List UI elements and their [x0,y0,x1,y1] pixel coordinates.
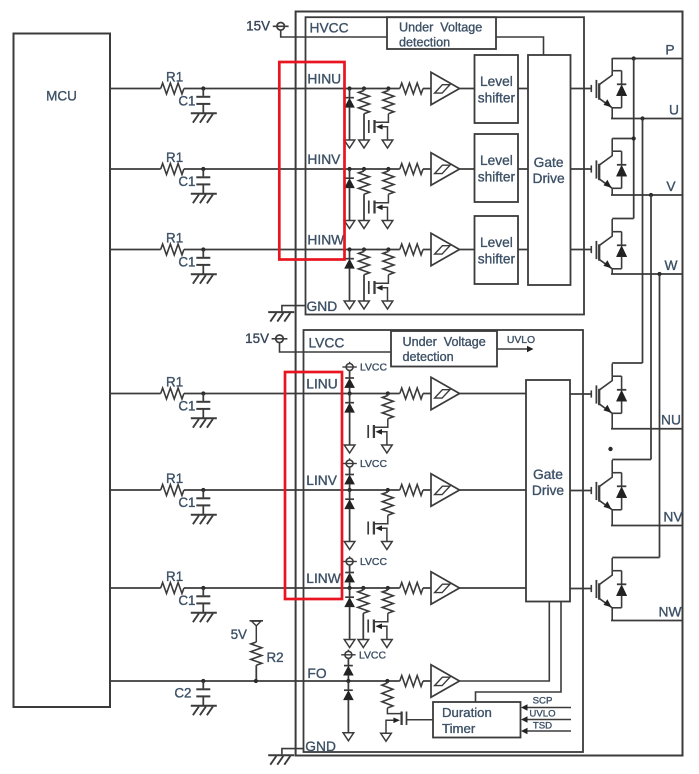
ground symbol (C1 LINV) [191,515,217,525]
junction clamp diodes (LINV) [348,488,352,492]
wire to buffer (HINU) [423,88,431,90]
wire UV detection to gate drive (high) [496,37,544,55]
open arrow GND (NMOS HINU) [382,140,393,148]
junction clamp diode (HINW) [347,247,351,251]
junction pulldown (HINU) [362,86,366,90]
svg-text:W: W [664,258,677,273]
pull-down resistor (HINV) [359,169,370,220]
schmitt buffer (FO) [431,665,460,698]
FO pin label [307,666,326,681]
capacitor C1 (HINV row) [196,169,210,194]
wire to buffer (LINU) [423,393,431,395]
wire to buffer (LINV) [423,489,431,491]
C1 label (HINV) [178,174,195,189]
clamp diode to GND (LINU) [345,394,355,445]
level shifter block (V phase) [475,134,519,202]
junction mosfet branch (LINV) [386,488,390,492]
collector bracket (NW) [612,557,659,559]
buffer output wire (LINU) [460,393,527,395]
open arrow GND (pulldown HINV) [359,221,370,229]
resistor R1 (LINV row) [161,485,184,496]
pull-down resistor (LINW) [358,588,369,639]
wire MCU to R1 (HINW) [110,249,161,251]
red highlight box (high-side inputs) [279,62,344,260]
wire MCU to R1 (HINV) [110,168,161,170]
ground symbol (C2) [191,706,217,716]
clamp diode to GND (HINU) [345,89,355,140]
svg-text:HINV: HINV [307,152,341,167]
wire gate drive to duration timer [476,602,562,703]
buffer output wire (HINU) [460,88,475,90]
svg-text:shifter: shifter [478,91,516,106]
NW rail [611,620,683,622]
resistor to NMOS (HINW) [383,250,394,275]
svg-text:NV: NV [663,510,683,525]
node dot between NU and NV [608,447,612,451]
5V supply arrow [250,621,264,642]
clamp diode to GND (LINV) [345,490,355,541]
LINU pin label [306,377,337,392]
open arrow GND (diode HINV) [344,221,355,229]
junction clamp diode (HINV) [347,167,351,171]
R1 label (LINV) [166,471,183,486]
open arrow GND (diode FO) [343,733,354,741]
resistor R1 (LINU row) [161,388,184,399]
schmitt buffer (HINV) [431,153,460,186]
junction C1 (LINV) [201,488,205,492]
schmitt buffer (LINU) [431,377,460,410]
svg-text:V: V [666,179,676,194]
buffer output wire (LINV) [460,489,527,491]
wire R1 to buffer input (LINV) [184,489,400,491]
V label [666,179,676,194]
svg-text:LINU: LINU [306,377,337,392]
under-voltage detection box (low) [391,331,497,367]
open arrow GND (NMOS LINW) [382,640,393,648]
GND pin wire (low) [282,749,304,755]
svg-text:C1: C1 [178,255,195,270]
wire to buffer (FO) [423,680,431,682]
red highlight box (low-side inputs) [285,372,342,599]
high-side driver inner box [306,17,585,314]
NMOS transistor (FO, fault pull-down) [386,708,407,733]
ground symbol (low GND) [268,755,294,765]
series resistor at buffer (HINW) [400,244,423,255]
C1 label (LINW) [178,593,195,608]
svg-text:R1: R1 [166,374,183,389]
schmitt buffer (HINW) [431,233,460,266]
svg-text:LVCC: LVCC [359,650,386,661]
LVCC small label (FO) [359,650,386,661]
svg-text:5V: 5V [231,627,247,642]
wire gate drive to IGBT gate (NU) [570,393,591,395]
GND pin label (low) [305,739,336,754]
svg-text:UVLO: UVLO [529,709,555,720]
svg-text:C2: C2 [174,686,191,701]
R1 label (LINU) [166,374,183,389]
P label [665,43,674,58]
U label [669,103,679,118]
U rail [611,116,683,120]
NMOS transistor (HINW) [369,275,389,301]
NMOS transistor (HINV) [369,194,389,220]
GND pin wire (high) [282,306,306,312]
clamp diode to LVCC (LINW) [345,565,355,588]
schmitt buffer (HINU) [431,72,460,105]
svg-text:detection: detection [403,350,454,364]
LVCC pin label [309,335,345,350]
series resistor at buffer (LINU) [400,388,423,399]
junction clamp diode (HINU) [347,86,351,90]
wire R1 to buffer input (HINW) [184,249,400,251]
junction R2-FO [254,679,258,683]
svg-text:LINV: LINV [306,473,337,488]
open arrow GND (NMOS LINV) [382,542,393,550]
junction pulldown (HINV) [362,167,366,171]
LINV pin label [306,473,337,488]
LVCC small label (LINV) [360,459,387,470]
wire R1 to buffer input (LINW) [184,587,400,589]
UVLO input wire and arrow [521,709,571,723]
NV label [663,510,683,525]
svg-text:shifter: shifter [478,252,516,267]
R2 label [267,650,284,665]
clamp diode to GND (FO) [344,681,354,733]
capacitor C1 (LINV row) [196,490,210,515]
wire MCU to R1 (HINU) [110,88,161,90]
P bus vertical [633,59,635,219]
collector bracket (NU) [612,362,642,364]
W bus vertical [659,274,661,558]
svg-text:Gate: Gate [534,155,564,170]
C1 label (HINW) [178,255,195,270]
open arrow GND (diode LINU) [344,445,355,453]
LVCC small label (LINU) [360,363,387,374]
svg-text:LINW: LINW [306,571,341,586]
resistor R1 (HINU row) [161,83,184,94]
HVCC pin label [310,20,349,35]
resistor to NMOS (LINW) [382,588,393,613]
svg-text:Timer: Timer [442,721,476,736]
GND pin label (high) [307,299,338,314]
pull resistor (FO) [382,681,393,708]
schmitt buffer (LINW) [431,572,460,605]
collector bracket (NV) [612,459,651,461]
pull-down resistor (HINW) [359,250,370,301]
svg-text:NU: NU [661,413,681,428]
FO buffer output wire [460,602,550,682]
resistor R1 (HINW row) [161,244,184,255]
junction mosfet branch (LINW) [386,586,390,590]
svg-text:Duration: Duration [442,705,492,720]
svg-text:R1: R1 [166,569,183,584]
buffer output wire (HINV) [460,168,475,170]
resistor R1 (LINW row) [161,583,184,594]
duration timer block [433,702,521,738]
capacitor C1 (HINW row) [196,250,210,275]
open arrow GND (NMOS LINU) [382,445,393,453]
NMOS gate wire from duration timer [407,719,434,721]
svg-text:R1: R1 [166,69,183,84]
junction C1 (HINW) [201,247,205,251]
open arrow GND (pulldown HINW) [359,301,370,309]
R1 label (HINV) [166,150,183,165]
under-voltage detection box (high) [387,17,496,49]
capacitor C1 (HINU row) [196,89,210,114]
ground symbol (C1 HINW) [191,274,217,284]
svg-text:GND: GND [307,299,338,314]
wire level shifter to gate drive (W) [518,249,528,251]
open arrow GND (pulldown HINU) [359,140,370,148]
HINW pin label [307,232,344,247]
capacitor C1 (LINU row) [196,394,210,419]
resistor R2 [251,642,262,681]
svg-text:P: P [665,43,674,58]
wire 15V to LVCC [280,343,392,352]
svg-text:Drive: Drive [532,483,565,498]
series resistor at buffer (HINV) [400,164,423,175]
junction clamp diodes (LINU) [348,391,352,395]
LVCC small label (LINW) [360,557,387,568]
svg-text:15V: 15V [245,331,269,346]
wire gate drive to IGBT gate (U high) [571,88,592,90]
open arrow GND (diode HINU) [344,140,355,148]
R1 label (HINU) [166,69,183,84]
NW label [659,605,682,620]
MCU block [14,34,111,708]
svg-text:R1: R1 [166,150,183,165]
wire gate drive to IGBT gate (NV) [570,490,591,492]
clamp diode to LVCC (LINV) [345,467,355,490]
junction C1 (LINU) [201,391,205,395]
clamp diode to LVCC (LINU) [345,371,355,394]
IGBT with diode (U phase low side) [591,364,627,429]
15V terminal (low side) [245,331,287,346]
svg-text:C1: C1 [178,593,195,608]
svg-text:FO: FO [307,666,326,681]
IGBT with diode (V phase high side) [591,139,627,196]
svg-text:C1: C1 [178,174,195,189]
NMOS transistor (LINV) [368,515,388,541]
schmitt buffer (LINV) [431,474,460,507]
P rail [612,56,682,60]
svg-text:UVLO: UVLO [507,335,535,346]
resistor R1 (HINV row) [161,164,184,175]
svg-text:HINW: HINW [307,232,344,247]
wire R1 to buffer input (HINU) [184,88,400,90]
junction pulldown (LINW) [361,586,365,590]
svg-text:Gate: Gate [533,467,563,482]
low-side driver inner box [304,330,584,752]
ground symbol (C1 HINV) [191,194,217,204]
wire MCU to R1 (LINU) [110,393,161,395]
clamp diode to GND (LINW) [345,588,355,639]
open arrow GND (diode LINV) [344,542,355,550]
open arrow GND (NMOS HINW) [382,301,393,309]
level shifter block (U phase) [475,55,519,123]
collector bracket (W high) [612,218,634,220]
junction clamp diodes (FO) [346,679,350,683]
LINW pin label [306,571,341,586]
open arrow GND (NMOS FO) [381,733,392,741]
buffer output wire (HINW) [460,249,475,251]
svg-text:R2: R2 [267,650,284,665]
svg-text:LVCC: LVCC [360,363,387,374]
ground symbol (C1 LINW) [191,613,217,623]
junction C1 (HINV) [201,167,205,171]
IGBT with diode (U phase high side) [591,58,627,119]
V rail [611,193,683,197]
IPM module outer box [296,12,683,756]
svg-text:C1: C1 [178,94,195,109]
UVLO output arrow [497,335,535,352]
svg-text:GND: GND [305,739,336,754]
svg-text:Level: Level [480,74,513,89]
buffer output wire (LINW) [460,587,527,589]
HINU pin label [307,71,341,86]
open arrow GND (diode LINW) [344,640,355,648]
junction C1 (LINW) [201,586,205,590]
svg-text:Under Voltage: Under Voltage [399,21,482,35]
R1 label (LINW) [166,569,183,584]
svg-text:detection: detection [399,36,450,50]
NMOS transistor (HINU) [369,114,389,140]
wire gate drive to IGBT gate (V high) [571,168,592,170]
C1 label (LINU) [178,399,195,414]
wire level shifter to gate drive (U) [518,88,528,90]
C1 label (HINU) [178,94,195,109]
wire MCU to R1 (LINW) [110,587,161,589]
W label [664,258,677,273]
clamp diode to GND (HINW) [345,250,355,301]
series resistor at buffer (HINU) [400,83,423,94]
IGBT with diode (W phase high side) [591,219,627,274]
series resistor at buffer (FO) [400,676,423,687]
TSD input wire and arrow [521,721,571,735]
svg-text:MCU: MCU [46,88,77,103]
svg-text:HVCC: HVCC [310,20,349,35]
ground symbol (C1 LINU) [191,418,217,428]
svg-text:TSD: TSD [533,721,552,732]
NU rail [611,428,683,430]
wire level shifter to gate drive (V) [518,168,528,170]
open arrow GND (pulldown LINW) [358,640,369,648]
svg-text:C1: C1 [178,399,195,414]
NMOS transistor (LINU) [368,419,388,445]
clamp diode to GND (HINV) [345,169,355,220]
SCP input wire and arrow [521,696,571,711]
U bus vertical [642,119,644,364]
wire R1 to buffer input (LINU) [184,393,400,395]
svg-text:LVCC: LVCC [360,459,387,470]
svg-text:15V: 15V [246,19,270,34]
LVCC terminal (FO) [341,650,355,660]
C1 label (LINV) [178,495,195,510]
LVCC terminal (LINV) [342,458,356,468]
svg-text:HINU: HINU [307,71,341,86]
svg-text:Under Voltage: Under Voltage [403,335,486,349]
wire to buffer (LINW) [423,587,431,589]
resistor to NMOS (LINU) [382,394,393,419]
junction mosfet branch (HINW) [386,247,390,251]
clamp diode to LVCC (FO) [344,658,354,681]
wire MCU to FO pin [110,680,400,682]
svg-text:Drive: Drive [532,171,565,186]
resistor to NMOS (HINU) [383,89,394,114]
V bus vertical [650,195,652,460]
W rail [611,272,683,276]
R1 label (HINW) [166,230,183,245]
resistor to NMOS (HINV) [383,169,394,194]
NMOS transistor (LINW) [368,613,388,639]
ground symbol (C1 HINU) [191,113,217,123]
HINV pin label [307,152,341,167]
svg-text:U: U [669,103,679,118]
junction mosfet branch (HINU) [386,86,390,90]
NU label [661,413,681,428]
series resistor at buffer (LINW) [400,583,423,594]
capacitor C1 (LINW row) [196,588,210,613]
capacitor C2 [196,681,210,706]
svg-text:LVCC: LVCC [309,335,345,350]
wire to buffer (HINW) [423,249,431,251]
svg-text:C1: C1 [178,495,195,510]
level shifter block (W phase) [475,216,519,284]
junction pulldown (HINW) [362,247,366,251]
LVCC terminal (LINW) [342,556,356,566]
svg-text:LVCC: LVCC [360,557,387,568]
wire R1 to buffer input (HINV) [184,168,400,170]
C2 label [174,686,191,701]
junction mosfet branch (LINU) [386,391,390,395]
ground symbol (high GND) [268,312,294,322]
NV rail [611,525,683,527]
svg-text:NW: NW [659,605,682,620]
junction mosfet branch (HINV) [386,167,390,171]
wire MCU to R1 (LINV) [110,489,161,491]
pull-down resistor (HINU) [359,89,370,140]
svg-text:Level: Level [480,153,513,168]
junction C2 [201,679,205,683]
collector bracket (V high) [612,136,636,140]
svg-text:Level: Level [480,235,513,250]
gate drive block (low side) [526,380,570,602]
svg-text:R1: R1 [166,230,183,245]
svg-text:shifter: shifter [478,170,516,185]
svg-text:SCP: SCP [533,696,553,707]
LVCC terminal (LINU) [342,362,356,372]
wire 15V to HVCC [281,30,387,37]
junction C1 (HINU) [201,86,205,90]
junction clamp diodes (LINW) [348,586,352,590]
IGBT with diode (V phase low side) [591,460,627,526]
series resistor at buffer (LINV) [400,485,423,496]
15V terminal (high side) [246,19,288,34]
resistor to NMOS (LINV) [382,490,393,515]
svg-text:R1: R1 [166,471,183,486]
5V label [231,627,247,642]
junction FO pullup branch [385,679,389,683]
gate drive block (high side) [528,55,571,285]
wire gate drive to IGBT gate (W high) [571,249,592,251]
open arrow GND (diode HINW) [344,301,355,309]
wire gate drive to IGBT gate (NW) [570,588,591,590]
IGBT with diode (W phase low side) [591,558,627,621]
wire to buffer (HINV) [423,168,431,170]
open arrow GND (NMOS HINV) [382,221,393,229]
